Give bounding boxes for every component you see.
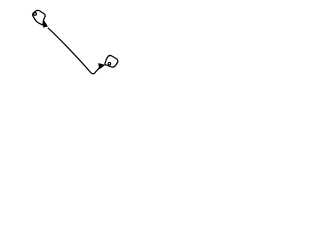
node A hole [34,13,37,16]
node A tag [33,10,46,25]
node B tag [105,55,118,67]
node B hole [108,62,111,64]
edge [48,28,100,74]
arrowhead at A [43,21,47,28]
arrowhead at B [98,63,104,68]
